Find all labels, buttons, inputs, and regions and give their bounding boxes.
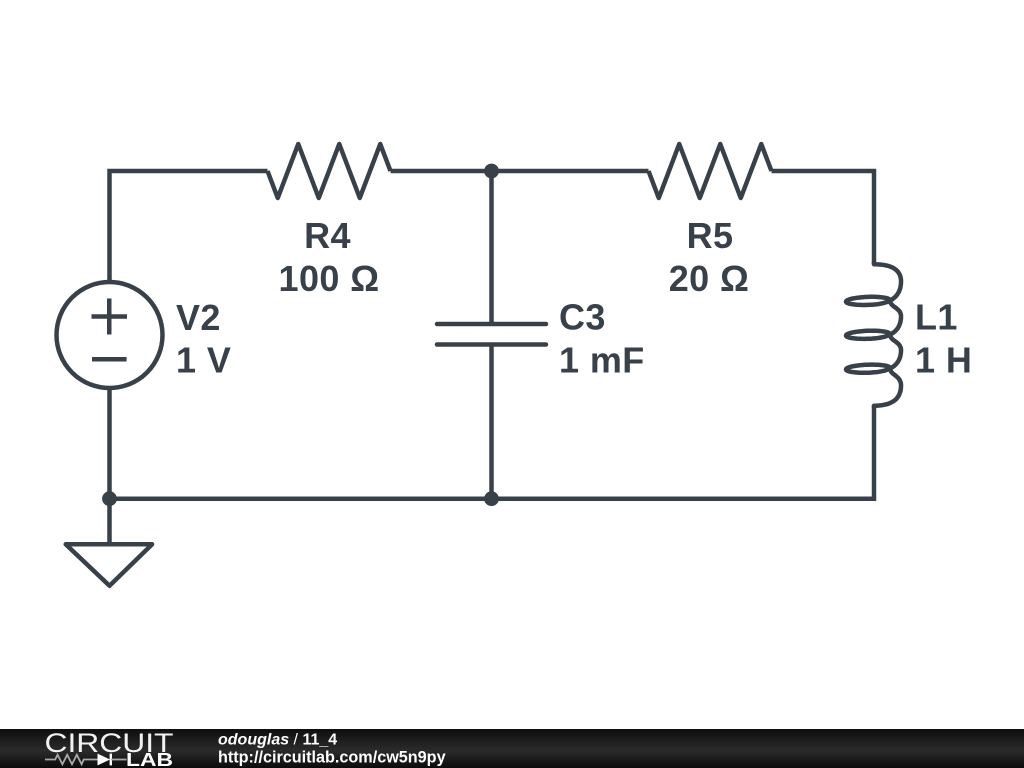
resistor R5 bbox=[649, 144, 772, 198]
svg-text:L1: L1 bbox=[915, 297, 958, 338]
wire node A to C3 top bbox=[489, 171, 494, 324]
wire L1 to bottom-right corner bbox=[110, 387, 875, 499]
resistor R4 bbox=[268, 144, 391, 198]
wire R4 to R5 through node A bbox=[391, 169, 649, 174]
inductor L1 coil bbox=[846, 262, 901, 408]
svg-text:V2: V2 bbox=[176, 297, 221, 338]
node A junction dot bbox=[484, 164, 499, 179]
footer bar bbox=[0, 729, 1024, 768]
capacitor C3 plates bbox=[437, 324, 546, 345]
ground symbol bbox=[66, 544, 152, 586]
svg-text:odouglas / 11_4: odouglas / 11_4 bbox=[218, 731, 337, 748]
svg-text:100 Ω: 100 Ω bbox=[279, 258, 380, 299]
logo resistor squiggle bbox=[45, 755, 98, 765]
svg-text:R4: R4 bbox=[304, 215, 351, 256]
bottom-left junction dot bbox=[102, 491, 117, 506]
svg-text:LAB: LAB bbox=[126, 750, 173, 768]
V2 minus sign bbox=[92, 357, 127, 362]
logo diode bbox=[98, 754, 111, 766]
bottom-middle junction dot bbox=[484, 491, 499, 506]
wire top-left from V2 to R4 bbox=[110, 171, 268, 283]
wire R5 to top-right corner down to L1 bbox=[772, 171, 875, 264]
ground stub bbox=[107, 499, 112, 544]
svg-text:1 mF: 1 mF bbox=[559, 340, 645, 381]
wire C3 bottom to bottom net bbox=[489, 345, 494, 499]
svg-text:http://circuitlab.com/cw5n9py: http://circuitlab.com/cw5n9py bbox=[218, 748, 446, 766]
svg-text:1 H: 1 H bbox=[915, 340, 972, 381]
voltage source V2 circle bbox=[57, 282, 163, 388]
svg-text:20 Ω: 20 Ω bbox=[669, 258, 750, 299]
svg-text:1 V: 1 V bbox=[176, 340, 231, 381]
V2 plus sign bbox=[92, 299, 128, 335]
svg-text:C3: C3 bbox=[559, 297, 606, 338]
svg-text:R5: R5 bbox=[687, 215, 734, 256]
